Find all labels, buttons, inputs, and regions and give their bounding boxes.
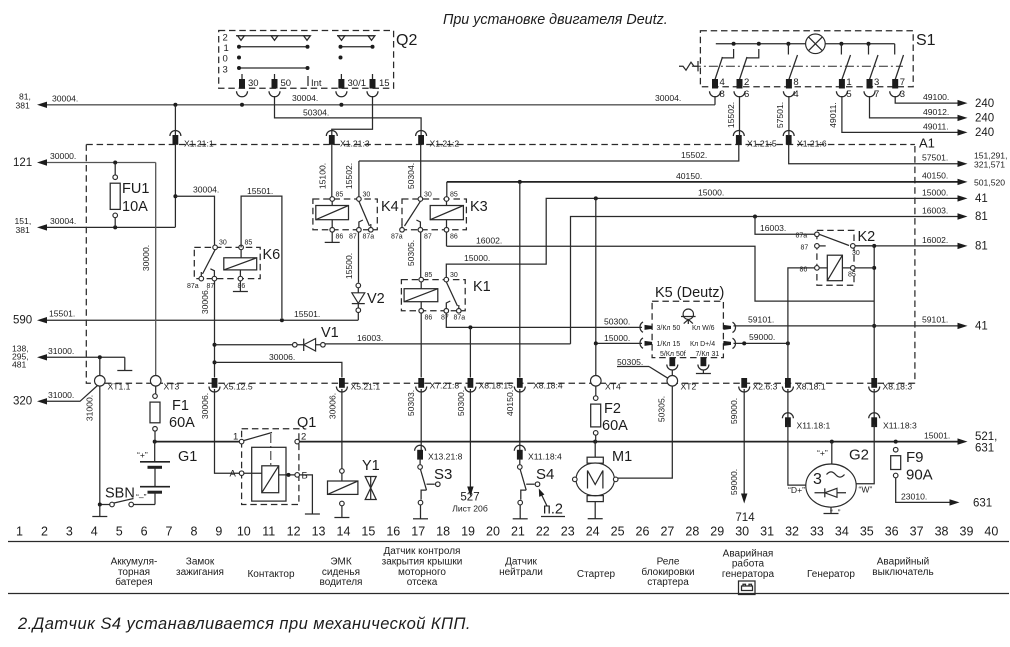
wire 59000 line (734, 342, 788, 344)
svg-text:50: 50 (281, 78, 292, 89)
svg-text:“+”: “+” (137, 450, 148, 460)
S1 lamp (806, 34, 826, 54)
K2 pins (815, 232, 820, 237)
wire 40150 to X8.18:4 (519, 182, 521, 378)
S1 contact 4 (840, 44, 842, 55)
Q2 terminal 30 (241, 74, 243, 80)
arrow to sheets 81,381 (37, 102, 47, 108)
connector X13.21:8 (415, 445, 426, 450)
svg-text:86: 86 (336, 234, 344, 241)
K5 pin KlD+/4 (723, 341, 731, 346)
wire K4-30 net 15502 (358, 161, 360, 197)
relay K2 box (817, 230, 854, 285)
svg-text:50303.: 50303. (406, 390, 416, 416)
wire K1-86 net 50303 (420, 313, 422, 377)
svg-text:15500.: 15500. (344, 253, 354, 279)
K4 contact (359, 201, 370, 226)
wire 57501 line (789, 145, 958, 164)
wire 59101 line (734, 325, 959, 327)
svg-text:15502.: 15502. (344, 163, 354, 189)
svg-text:0: 0 (223, 54, 228, 65)
wire 49012 to sheet 240 (870, 96, 959, 118)
wire K3-86 net 16002 start (446, 232, 448, 246)
svg-text:15502.: 15502. (726, 102, 736, 128)
wire 30006 line (215, 362, 342, 377)
svg-text:4: 4 (793, 89, 798, 100)
svg-text:30: 30 (248, 78, 259, 89)
svg-text:8: 8 (720, 89, 725, 100)
S1 contact 2 (740, 57, 748, 80)
svg-text:49012.: 49012. (923, 107, 949, 117)
svg-text:7: 7 (166, 525, 173, 539)
S1 actuator linkage (692, 65, 903, 67)
connector X1.21:2 (416, 131, 427, 137)
K5 pin KlW/6 (723, 325, 731, 330)
svg-text:16003.: 16003. (922, 206, 948, 216)
svg-text:240: 240 (975, 98, 994, 110)
svg-text:40: 40 (984, 525, 998, 539)
ignition switch Q2 dashed box (219, 31, 394, 89)
svg-text:п.2: п.2 (543, 502, 563, 518)
wire X11.18:1 to G2 D+ (788, 425, 806, 486)
svg-text:87a: 87a (391, 234, 403, 241)
wire 49100 to sheet 240 (895, 96, 958, 103)
wire X1.21:2 to K3-30 net 50304 (420, 145, 422, 197)
wire 30000 vertical to XT3 (155, 163, 157, 376)
connector X8.18:1 (785, 378, 791, 388)
wire S1 to X1.21:6 net 57501 (788, 96, 790, 136)
svg-text:15502.: 15502. (681, 150, 707, 160)
Q1 pin B (295, 473, 300, 478)
Q2 row 0 contacts (237, 56, 241, 60)
wire 30000 from sheet 121 (47, 162, 156, 164)
svg-text:240: 240 (975, 113, 994, 125)
svg-text:38: 38 (935, 525, 949, 539)
battery G1 (154, 442, 156, 462)
svg-text:381: 381 (16, 225, 31, 235)
svg-text:50305.: 50305. (617, 357, 643, 367)
Q2 terminal 50 (274, 74, 276, 80)
contactor Q1 dashed box (242, 429, 299, 505)
svg-text:40150.: 40150. (922, 171, 948, 181)
diode V1 (293, 343, 298, 348)
svg-text:X1.21:6: X1.21:6 (797, 139, 827, 149)
svg-text:FU1: FU1 (122, 181, 149, 197)
svg-text:7: 7 (900, 77, 905, 88)
svg-text:41: 41 (975, 321, 988, 333)
svg-text:30: 30 (450, 272, 458, 279)
svg-text:2: 2 (41, 525, 48, 539)
svg-text:K5 (Deutz): K5 (Deutz) (655, 285, 724, 301)
svg-text:59000.: 59000. (729, 398, 739, 424)
S1 contact 1 (715, 57, 723, 80)
S1 contact 3 (787, 44, 789, 55)
wire X1.21:1 branch net 30004 (174, 105, 176, 135)
S1 contact 6 (894, 44, 896, 55)
svg-text:30004.: 30004. (292, 93, 318, 103)
wire 30004 bus (47, 104, 715, 106)
wire Q2-15 to X1.21:3 (332, 96, 373, 135)
S1 contact 5 (868, 44, 870, 55)
K5 pin 3/Kl50 (640, 322, 643, 332)
svg-text:K4: K4 (381, 199, 399, 215)
K1 contact (446, 282, 457, 306)
wire X1.21:3 to K4-85 net 15100 (331, 145, 333, 197)
Q1 coil (262, 466, 279, 493)
svg-text:A1: A1 (919, 136, 935, 151)
wire K3-87 to K1-85 net 50305 (420, 232, 422, 277)
svg-text:87a: 87a (454, 315, 466, 322)
wire 30006 to Y1 (341, 389, 343, 469)
svg-text:50300.: 50300. (456, 390, 466, 416)
Q1 pin A (239, 471, 244, 476)
svg-text:9: 9 (215, 525, 222, 539)
svg-text:59000.: 59000. (749, 332, 775, 342)
svg-text:16: 16 (386, 525, 400, 539)
svg-text:320: 320 (13, 396, 32, 408)
svg-text:87: 87 (424, 234, 432, 241)
svg-text:28: 28 (685, 525, 699, 539)
svg-text:30006.: 30006. (200, 393, 210, 419)
svg-text:A: A (230, 469, 237, 480)
svg-text:3: 3 (900, 89, 905, 100)
control unit K5 dashed box (652, 301, 723, 357)
svg-text:12: 12 (287, 525, 301, 539)
svg-text:35: 35 (860, 525, 874, 539)
svg-text:20: 20 (486, 525, 500, 539)
svg-text:87: 87 (801, 245, 809, 252)
svg-text:15000.: 15000. (698, 188, 724, 198)
svg-text:Контактор: Контактор (247, 569, 294, 580)
svg-text:60A: 60A (169, 415, 195, 431)
connector X8.18:15 (468, 378, 474, 388)
svg-text:15000.: 15000. (464, 253, 490, 263)
diode V2 (356, 283, 361, 288)
K5 pin 1/Kl15 (640, 338, 643, 348)
svg-text:41: 41 (975, 193, 988, 205)
K3 contact (405, 201, 421, 226)
wire K2-86 to 59000 (788, 268, 815, 383)
svg-text:“–”: “–” (136, 492, 147, 502)
wire 40150 line (447, 181, 958, 183)
svg-text:31000.: 31000. (85, 395, 95, 421)
svg-text:30006.: 30006. (269, 352, 295, 362)
svg-text:X8.18:4: X8.18:4 (533, 381, 563, 391)
wire V2 to 15501 (357, 313, 359, 321)
svg-text:V1: V1 (321, 325, 339, 341)
svg-text:8: 8 (793, 77, 798, 88)
svg-text:31000.: 31000. (48, 346, 74, 356)
svg-text:G2: G2 (849, 447, 869, 464)
svg-text:24: 24 (586, 525, 600, 539)
svg-text:X8.18:3: X8.18:3 (883, 382, 913, 392)
svg-text:39: 39 (960, 525, 974, 539)
K4 coil (316, 206, 349, 220)
connector X11.18:1 (787, 389, 789, 419)
fuse F1 60A (155, 386, 157, 394)
svg-text:Стартер: Стартер (577, 569, 616, 580)
svg-text:X11.18:1: X11.18:1 (797, 421, 831, 431)
svg-text:K6: K6 (263, 247, 281, 263)
svg-text:Лист 20б: Лист 20б (452, 504, 488, 514)
relay K3 box (402, 199, 466, 230)
svg-text:7/Кл 31: 7/Кл 31 (696, 351, 720, 358)
svg-text:XT3: XT3 (164, 382, 180, 392)
svg-text:XT4: XT4 (605, 382, 621, 392)
svg-text:501,520: 501,520 (974, 178, 1005, 188)
wire S1 to X1.21:5 net 15502 (739, 96, 741, 136)
svg-text:7: 7 (874, 89, 879, 100)
svg-text:16003.: 16003. (357, 333, 383, 343)
svg-text:85: 85 (450, 192, 458, 199)
K3 coil (430, 206, 463, 220)
svg-text:481: 481 (12, 360, 27, 370)
svg-text:25: 25 (611, 525, 625, 539)
svg-text:59000.: 59000. (729, 469, 739, 495)
neutral switch S4 (519, 459, 521, 465)
svg-text:15001.: 15001. (924, 431, 950, 441)
wire 30004 to sheets 151,381 (47, 226, 175, 228)
wire K3-85 to 40150 (446, 182, 448, 197)
svg-text:16003.: 16003. (760, 223, 786, 233)
svg-text:нейтрали: нейтрали (499, 567, 543, 578)
svg-text:X11.18:4: X11.18:4 (528, 452, 562, 462)
wire 16003 line (571, 217, 959, 344)
svg-text:30006.: 30006. (200, 288, 210, 314)
svg-text:36: 36 (885, 525, 899, 539)
svg-text:50304.: 50304. (406, 163, 416, 189)
Q2 terminal 15 (372, 74, 374, 80)
wire 50303 to X13.21:8 (420, 389, 422, 451)
svg-text:527: 527 (460, 492, 479, 504)
wire K4-87 net 15500 (358, 232, 360, 283)
wire 30006 to Q1-A (215, 389, 240, 473)
svg-text:M1: M1 (612, 449, 632, 465)
svg-text:S1: S1 (916, 32, 936, 49)
svg-text:F1: F1 (172, 398, 189, 414)
K1 pins (419, 277, 424, 282)
connector X2.6:3 (741, 378, 747, 388)
starter M1 (594, 442, 596, 458)
svg-text:381: 381 (16, 101, 31, 111)
svg-text:S4: S4 (536, 466, 554, 483)
svg-text:86: 86 (238, 283, 246, 290)
ground K6-86 (239, 281, 241, 292)
svg-text:3: 3 (874, 77, 879, 88)
wire 15000 to F2 (595, 386, 597, 396)
svg-text:40150.: 40150. (505, 390, 515, 416)
wire 49011 to sheet 240 (842, 96, 958, 132)
svg-text:Q1: Q1 (297, 415, 316, 431)
svg-text:Б: Б (302, 471, 308, 482)
connector X5.21:1 (339, 378, 345, 388)
svg-text:81: 81 (975, 241, 988, 253)
svg-text:15100.: 15100. (317, 163, 327, 189)
wire K2-30 to 16002 (855, 245, 874, 247)
svg-text:15501.: 15501. (49, 309, 75, 319)
fuse F2 60A (593, 396, 598, 401)
hood switch S3 (419, 459, 421, 465)
svg-text:X2.6:3: X2.6:3 (753, 382, 778, 392)
svg-text:90A: 90A (906, 467, 933, 484)
svg-text:3: 3 (223, 65, 228, 76)
svg-text:714: 714 (735, 512, 755, 524)
wire XT1.1 to ground (99, 386, 101, 505)
svg-text:49100.: 49100. (923, 92, 949, 102)
K6 contact (203, 250, 216, 274)
wire 15000 vertical (595, 198, 597, 343)
svg-text:23010.: 23010. (901, 492, 927, 502)
connector X7.21:8 (418, 378, 424, 388)
svg-text:13: 13 (312, 525, 326, 539)
ground at 31000 (124, 357, 126, 370)
svg-text:K2: K2 (858, 229, 876, 245)
svg-text:85: 85 (425, 272, 433, 279)
svg-text:30: 30 (424, 192, 432, 199)
svg-text:32: 32 (785, 525, 799, 539)
svg-text:отсека: отсека (407, 577, 438, 588)
svg-text:590: 590 (13, 315, 32, 327)
svg-text:15501.: 15501. (247, 186, 273, 196)
svg-text:4: 4 (91, 525, 98, 539)
svg-text:59101.: 59101. (922, 315, 948, 325)
svg-text:11: 11 (262, 525, 275, 539)
svg-text:X1.21:5: X1.21:5 (747, 139, 777, 149)
svg-text:30000.: 30000. (141, 245, 151, 271)
svg-text:521,: 521, (975, 431, 997, 443)
svg-text:блокировки: блокировки (641, 566, 694, 578)
svg-text:59101.: 59101. (748, 315, 774, 325)
svg-text:23: 23 (561, 525, 575, 539)
svg-text:85: 85 (848, 272, 856, 279)
svg-text:631: 631 (973, 498, 992, 510)
wire 15502 line (359, 145, 739, 161)
svg-text:работа: работа (732, 558, 765, 570)
svg-text:31: 31 (760, 525, 774, 539)
svg-text:87a: 87a (796, 233, 808, 240)
svg-text:30004.: 30004. (52, 94, 78, 104)
relay K1 box (401, 280, 465, 311)
svg-text:Кл D+/4: Кл D+/4 (690, 341, 715, 348)
panel A1 boundary (86, 145, 915, 384)
wire K6-87 net 30006 (214, 281, 216, 378)
svg-text:57501.: 57501. (775, 102, 785, 128)
svg-text:2: 2 (744, 77, 749, 88)
K5 internal symbol (683, 309, 693, 319)
K6 coil (224, 258, 257, 270)
svg-text:15: 15 (379, 78, 390, 89)
fuse F9 90A (893, 447, 898, 452)
K1 coil (404, 289, 438, 302)
Q2 row 1 contacts (239, 46, 308, 48)
wire 59000 to sheet 714 (743, 389, 745, 494)
svg-text:выключатель: выключатель (872, 567, 933, 578)
svg-text:86: 86 (425, 315, 433, 322)
wire 16002 line (447, 246, 875, 301)
svg-text:85: 85 (336, 192, 344, 199)
Q1 linkage (270, 434, 272, 465)
wire 31000 to sheet 320 (47, 386, 98, 402)
svg-text:34: 34 (835, 525, 849, 539)
svg-text:17: 17 (411, 525, 425, 539)
svg-text:22: 22 (536, 525, 550, 539)
terminal XT4 (595, 343, 597, 375)
svg-text:2.Датчик S4 устанавливается пр: 2.Датчик S4 устанавливается при механиче… (17, 615, 471, 633)
Q2 terminal Int (307, 76, 309, 86)
wire 15000 to K5 (596, 342, 642, 344)
svg-text:30004.: 30004. (50, 216, 76, 226)
svg-text:“W”: “W” (859, 485, 873, 495)
wire 40150 to X11.18:4 (519, 389, 521, 451)
svg-text:30: 30 (219, 240, 227, 247)
svg-text:121: 121 (13, 157, 32, 169)
svg-text:21: 21 (511, 525, 525, 539)
svg-text:87a: 87a (187, 283, 199, 290)
svg-text:50300.: 50300. (604, 317, 630, 327)
Q2 terminal 30/1 (340, 74, 342, 80)
scale rule bottom (8, 593, 1009, 595)
svg-text:49011.: 49011. (828, 102, 838, 128)
svg-text:Y1: Y1 (362, 458, 380, 474)
svg-text:8: 8 (190, 525, 197, 539)
K4 pins (330, 197, 335, 202)
wire 50300 to X8.18:15 (469, 327, 471, 377)
svg-text:15: 15 (361, 525, 375, 539)
svg-text:18: 18 (436, 525, 450, 539)
svg-text:6: 6 (744, 89, 749, 100)
svg-text:Q2: Q2 (396, 32, 417, 49)
svg-text:631: 631 (975, 443, 994, 455)
wire 50305 from XT2 (618, 386, 672, 478)
svg-text:14: 14 (337, 525, 351, 539)
svg-text:30004.: 30004. (193, 185, 219, 195)
svg-text:S3: S3 (434, 466, 452, 483)
svg-text:6: 6 (141, 525, 148, 539)
svg-text:3: 3 (813, 471, 822, 488)
svg-text:“+”: “+” (817, 448, 828, 458)
svg-text:40150.: 40150. (676, 171, 702, 181)
solenoid Y1 (340, 469, 345, 474)
svg-text:зажигания: зажигания (176, 567, 224, 578)
svg-text:85: 85 (245, 240, 253, 247)
svg-text:29: 29 (710, 525, 724, 539)
svg-text:5: 5 (846, 89, 851, 100)
K2 coil (827, 255, 842, 281)
svg-text:1/Кл 15: 1/Кл 15 (657, 341, 681, 348)
svg-text:X1.21:1: X1.21:1 (184, 139, 214, 149)
svg-text:X11.18:3: X11.18:3 (883, 421, 917, 431)
svg-text:10A: 10A (122, 199, 148, 215)
wire K6-85 net 15501 (241, 196, 282, 318)
K2 contact (819, 234, 849, 245)
note p.2 (541, 493, 548, 507)
connector X11.18:4 (514, 445, 525, 450)
Q2 row 2 contacts (236, 35, 310, 37)
generator G2 (831, 442, 833, 465)
svg-text:X13.21:8: X13.21:8 (428, 452, 463, 462)
wire 23010 to sheet 631 (896, 478, 950, 503)
terminal XT2 (667, 376, 678, 387)
K3 pins (418, 197, 423, 202)
svg-text:V2: V2 (367, 291, 385, 307)
svg-text:1: 1 (16, 525, 23, 539)
svg-text:5: 5 (116, 525, 123, 539)
connector X1.21:5 (733, 131, 744, 137)
svg-text:31000.: 31000. (48, 390, 74, 400)
relay K6 box (194, 247, 260, 278)
svg-text:генератора: генератора (722, 569, 775, 580)
wire 50300 to sheet 527 (469, 389, 471, 487)
